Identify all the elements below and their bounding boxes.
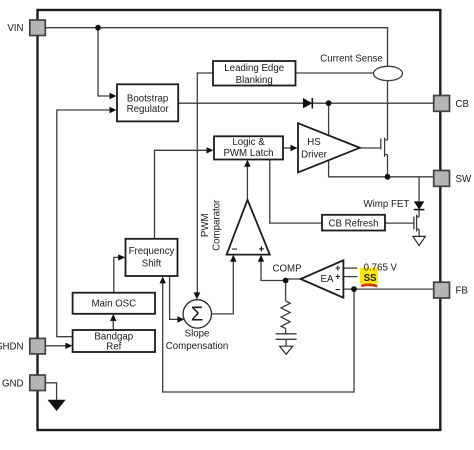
svg-text:SW: SW: [456, 174, 472, 185]
svg-text:Driver: Driver: [301, 149, 328, 160]
svg-text:CB: CB: [456, 99, 469, 110]
svg-text:Main OSC: Main OSC: [91, 299, 136, 310]
svg-text:+: +: [258, 244, 264, 255]
svg-text:PWM Latch: PWM Latch: [223, 148, 273, 159]
svg-text:HS: HS: [307, 137, 321, 148]
svg-text:−: −: [335, 285, 340, 295]
svg-text:COMP: COMP: [272, 264, 301, 275]
svg-text:Leading Edge: Leading Edge: [224, 63, 284, 74]
svg-text:Ref: Ref: [106, 341, 121, 352]
svg-text:GND: GND: [2, 378, 24, 389]
svg-text:CB Refresh: CB Refresh: [328, 219, 378, 230]
svg-text:Blanking: Blanking: [236, 75, 273, 86]
svg-text:Shift: Shift: [142, 259, 162, 270]
svg-text:VIN: VIN: [7, 23, 23, 34]
svg-text:Bootstrap: Bootstrap: [127, 93, 168, 104]
svg-text:SS: SS: [364, 273, 377, 284]
svg-text:Frequency: Frequency: [129, 246, 175, 257]
svg-text:+: +: [335, 272, 340, 282]
svg-text:Regulator: Regulator: [127, 104, 170, 115]
svg-text:Comparator: Comparator: [212, 199, 223, 251]
svg-text:Σ: Σ: [191, 304, 203, 326]
svg-text:Current Sense: Current Sense: [320, 54, 382, 65]
svg-text:SHDN: SHDN: [0, 341, 24, 352]
svg-text:Logic &: Logic &: [232, 137, 265, 148]
svg-text:Compensation: Compensation: [166, 341, 228, 352]
svg-text:Slope: Slope: [185, 328, 210, 339]
svg-text:FB: FB: [456, 286, 468, 297]
svg-text:EA: EA: [321, 274, 334, 285]
svg-text:Wimp FET: Wimp FET: [364, 199, 410, 210]
svg-text:PWM: PWM: [200, 213, 211, 237]
svg-text:−: −: [232, 244, 238, 255]
